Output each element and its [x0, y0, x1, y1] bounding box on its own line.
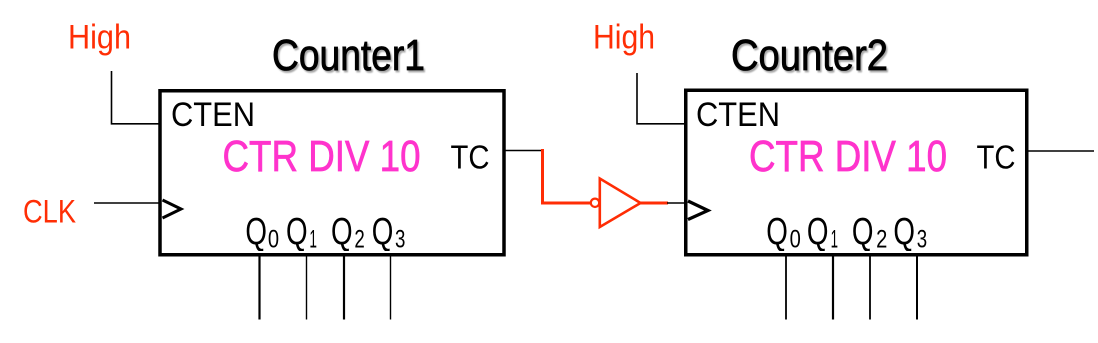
inverter G1 triangle	[600, 179, 641, 228]
svg-text:CTEN: CTEN	[696, 96, 780, 134]
wire High2 to CTEN	[637, 73, 685, 124]
svg-text:1: 1	[309, 226, 317, 254]
wire Q3 (U2)	[916, 256, 918, 320]
svg-text:TC: TC	[451, 139, 490, 176]
svg-text:Q: Q	[893, 211, 915, 253]
wire TC1 to inverter input (red)	[543, 149, 592, 203]
wire TC1 output	[504, 150, 544, 152]
svg-text:Q: Q	[766, 211, 788, 253]
svg-text:CTR DIV 10: CTR DIV 10	[223, 132, 421, 181]
svg-text:Q: Q	[372, 211, 394, 253]
svg-text:CLK: CLK	[23, 194, 76, 230]
svg-text:1: 1	[831, 226, 838, 254]
svg-text:High: High	[68, 19, 131, 57]
wire TC2 output	[1027, 150, 1094, 152]
wire Q2 (U1)	[343, 256, 345, 320]
svg-text:Q: Q	[807, 211, 829, 253]
wire Q0 (U1)	[258, 256, 260, 320]
wire Q2 (U2)	[869, 256, 871, 320]
svg-text:CTEN: CTEN	[171, 96, 255, 134]
svg-text:High: High	[593, 19, 655, 57]
svg-text:3: 3	[395, 226, 405, 254]
wire inverter output (red)	[641, 202, 669, 205]
svg-text:Q: Q	[286, 211, 308, 253]
wire into U2 clock	[667, 202, 685, 204]
wire Q3 (U1)	[390, 256, 392, 320]
wire CLK input	[94, 202, 159, 204]
counter U1 box	[160, 91, 504, 255]
svg-text:Q: Q	[331, 211, 353, 253]
svg-text:3: 3	[917, 226, 927, 254]
svg-text:CTR DIV 10: CTR DIV 10	[749, 132, 947, 181]
wire Q1 (U1)	[306, 256, 308, 320]
svg-text:2: 2	[876, 226, 887, 254]
wire Q0 (U2)	[785, 256, 787, 320]
svg-text:0: 0	[268, 226, 279, 254]
svg-text:Counter1: Counter1	[272, 32, 425, 80]
clock chevron U1	[163, 200, 182, 218]
svg-text:TC: TC	[977, 139, 1016, 176]
svg-text:Q: Q	[245, 211, 267, 253]
counter U2 box	[686, 90, 1027, 255]
wire Q1 (U2)	[832, 256, 834, 320]
clock chevron U2	[688, 201, 708, 220]
svg-text:0: 0	[790, 226, 801, 254]
wire High1 to CTEN	[112, 71, 160, 124]
svg-text:Counter2: Counter2	[731, 32, 888, 80]
inverter G1 bubble	[591, 199, 599, 207]
svg-text:Q: Q	[852, 211, 874, 253]
svg-text:2: 2	[354, 226, 364, 254]
